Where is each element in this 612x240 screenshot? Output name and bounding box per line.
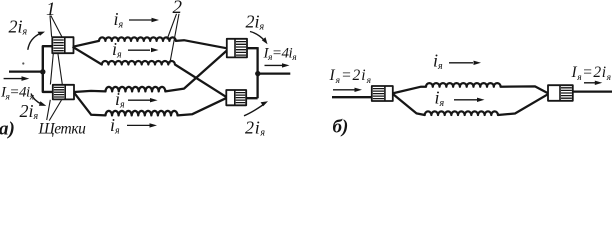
svg-text:Iя=4iя: Iя=4iя [263,45,297,63]
brush 6 right figure b [548,85,573,101]
wire: input lead figure a [9,70,43,72]
junction dot left bus [40,69,45,74]
svg-text:2iя: 2iя [246,12,265,33]
svg-text:2iя: 2iя [20,101,39,122]
wire: left bus [43,46,53,92]
ink speck [22,62,24,64]
armature coil w2 (branch 2) [73,47,227,98]
curved arrow 2ia top-right [250,32,268,45]
svg-text:2iя: 2iя [9,17,28,38]
svg-text:iя: iя [112,39,122,61]
armature coil w3 (branch 3) [74,50,227,92]
wire: right bus [246,47,258,98]
armature coil bottom figure b [393,94,548,115]
label 1 with leader lines [46,0,62,84]
label brushes (Shchetki) with leader lines [38,100,87,138]
current arrow input Ia=4ia [4,76,30,81]
current arrow output Ia=4ia [265,63,290,67]
svg-text:iя: iя [114,9,124,31]
curved arrow 2ia bottom-left [31,94,46,106]
armature coil w4 (branch 4) [74,93,227,116]
current label ia branch3 with arrow [115,89,158,111]
current arrow input Ia=2ia [333,88,362,92]
brush 1 top-left [52,37,73,53]
svg-text:iя: iя [435,88,445,110]
svg-text:iя: iя [433,51,443,73]
curved arrow 2ia bottom-right [244,101,268,116]
brush 4 bottom-right [226,90,246,105]
svg-text:Iя=4iя: Iя=4iя [0,85,34,103]
wire: output lead figure b [573,90,612,92]
brush 3 top-right [227,39,247,58]
svg-text:б): б) [333,117,349,138]
junction dot right bus [255,71,260,76]
svg-text:2: 2 [173,0,183,18]
curved arrow 2ia top-left [28,32,45,50]
brush 5 left figure b [372,86,393,101]
armature coil top figure b [393,83,548,93]
svg-text:1: 1 [46,0,56,20]
current label ia branch4 with arrow [110,115,157,137]
wire: output lead figure a [258,72,291,74]
current label ia top branch figure b with arrow [433,51,481,73]
wire: input lead figure b [332,96,372,98]
armature coil w1 (branch 1) [73,37,227,48]
svg-text:iя: iя [115,89,125,111]
label 2 with leader lines [167,0,183,64]
current label ia branch1 with arrow [114,9,160,31]
svg-text:2iя: 2iя [245,118,266,139]
current label ia bottom branch figure b with arrow [435,88,485,110]
brush 2 bottom-left [53,85,74,100]
current label ia branch2 with arrow [112,39,159,61]
svg-text:Iя=2iя: Iя=2iя [329,67,373,86]
svg-text:iя: iя [110,115,120,137]
svg-text:Iя=2iя: Iя=2iя [571,64,612,83]
svg-text:Щетки: Щетки [38,121,87,138]
current arrow output Ia=2ia [584,81,602,85]
svg-text:а): а) [0,119,15,140]
